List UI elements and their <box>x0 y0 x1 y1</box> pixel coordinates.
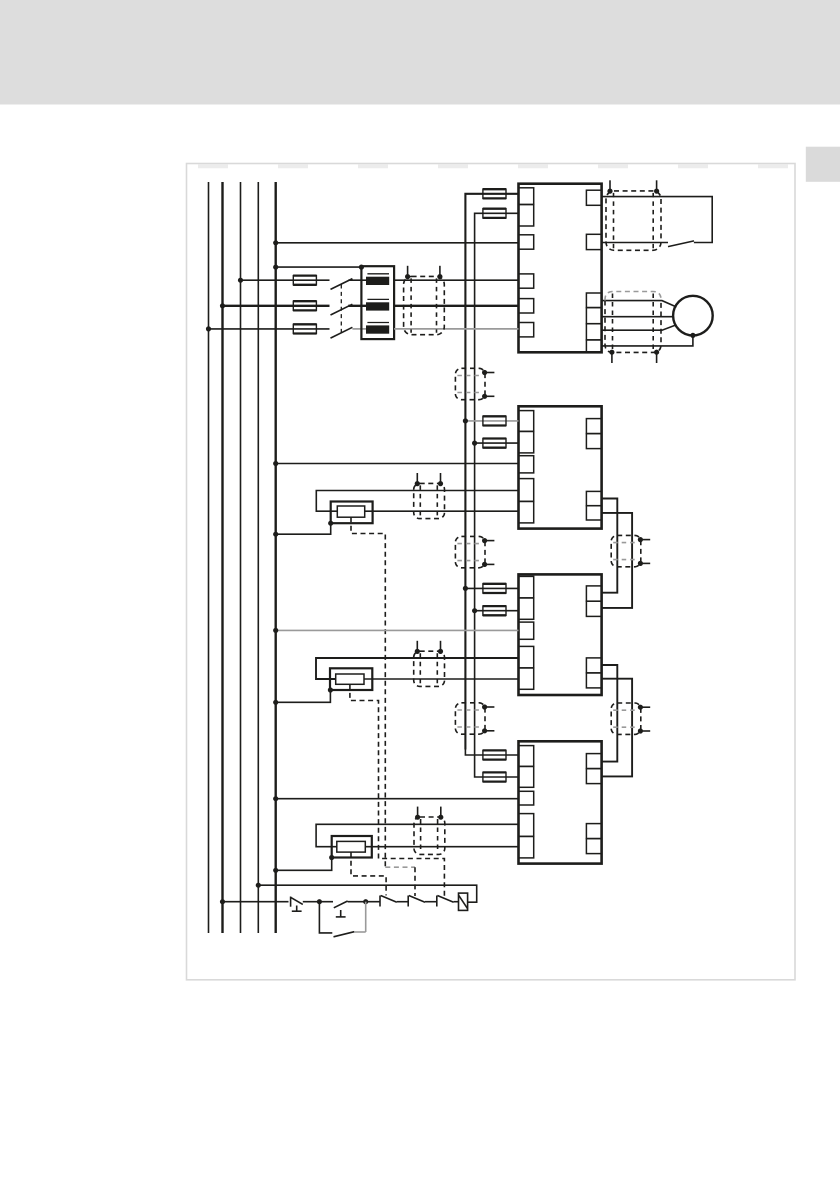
motor M1 <box>673 296 713 336</box>
inverter U3 <box>519 574 602 695</box>
wire RB3 ground <box>276 858 332 871</box>
junction RB2 housing <box>328 687 333 692</box>
contactor K1 pole 1 <box>331 279 353 290</box>
junction RB3 housing <box>329 855 334 860</box>
thermal link RB1 drop <box>414 867 416 896</box>
wire S5-K1 <box>454 901 459 903</box>
shield mains cable <box>404 266 445 335</box>
junction RB1 housing <box>328 521 333 526</box>
RFI filter Z1 <box>361 266 394 339</box>
bus line L2 <box>221 182 223 933</box>
wire fuse U4 - <box>475 772 519 778</box>
wire L1 branch <box>241 279 330 281</box>
fuse F3 <box>293 324 317 333</box>
bus line PE <box>275 182 277 933</box>
thermal link RB2 <box>350 684 445 896</box>
fuse F2 <box>293 301 317 310</box>
thermal contact S3 <box>380 896 397 907</box>
junction L control <box>220 899 225 904</box>
junction RB3 PE <box>273 868 278 873</box>
shield clamp chain 2-3 <box>611 535 650 566</box>
shield clamp feed 3-4 <box>455 703 494 734</box>
wire RB2 ground <box>276 690 331 702</box>
fuse F31 <box>483 750 507 759</box>
wire fuse U4 + <box>465 750 518 756</box>
wire PE to U2 <box>276 463 519 465</box>
junction PE bus 2 <box>273 265 278 270</box>
wire PE to U4 <box>276 798 519 800</box>
bus line L1 <box>208 182 210 933</box>
wire S2-S3 <box>348 901 380 903</box>
inverter U2 <box>519 406 602 528</box>
brake contact <box>668 241 694 247</box>
shield clamp chain 3-4 <box>611 703 650 734</box>
wire +UG feed <box>465 194 518 750</box>
wire control chain <box>223 901 289 903</box>
inverter U4 <box>519 741 602 863</box>
wire PE to filter <box>276 266 362 268</box>
bus line L3 <box>240 182 242 933</box>
junction latch left <box>317 899 322 904</box>
junction PE U2 <box>273 461 278 466</box>
wire brake + <box>602 197 713 243</box>
wire DC chain 3-4 - <box>602 679 633 777</box>
shield clamp feed 1-2 <box>455 368 494 399</box>
wire motor U <box>602 301 677 307</box>
fuse F1 <box>293 276 317 285</box>
wire fuse U2 + <box>465 420 518 422</box>
junction feed U2 - <box>472 441 477 446</box>
junction filter PE <box>359 265 364 270</box>
inverter U1 <box>519 184 602 353</box>
wire S4-S5 <box>425 901 437 903</box>
start button S2 <box>334 901 348 917</box>
shield clamp feed 2-3 <box>455 536 494 567</box>
junction RB1 PE <box>273 532 278 537</box>
shield brake cable <box>606 180 661 250</box>
wire motor W <box>602 325 677 330</box>
wire U to U1 <box>394 279 518 281</box>
fuse F22 <box>483 606 507 615</box>
shield clamp RB1 <box>414 473 445 519</box>
wire L2 to filter <box>348 305 366 307</box>
fuse F21 <box>483 584 507 593</box>
fuse F5 -UG <box>483 209 507 218</box>
wire S3-S4 <box>397 901 408 903</box>
junction PE bus 1 <box>273 240 278 245</box>
contactor K1 pole 3 <box>331 327 353 338</box>
thermal contact S5 <box>437 896 454 907</box>
junction PE U4 <box>273 796 278 801</box>
shield clamp RB2 <box>414 641 445 687</box>
wire fuse U3 + <box>465 587 518 589</box>
fuse F32 <box>483 772 507 781</box>
brake resistor RB3 <box>316 824 518 857</box>
junction RB2 PE <box>273 700 278 705</box>
wire PE to U3 <box>276 629 519 631</box>
junction feed U3 - <box>472 608 477 613</box>
brake resistor RB1 <box>316 491 518 524</box>
scan ghost row <box>198 164 792 168</box>
junction PE U3 <box>273 628 278 633</box>
section tab <box>806 147 840 182</box>
wire motor PE <box>602 335 693 346</box>
wire L1 to filter <box>348 279 366 281</box>
wire L3 to filter <box>352 328 366 330</box>
latch contact K1 <box>319 902 365 937</box>
wire RB1 ground <box>276 523 331 534</box>
junction L1 <box>238 278 243 283</box>
wire DC chain 3-4 + <box>602 665 618 762</box>
junction N control <box>256 883 261 888</box>
junction feed U2 + <box>463 418 468 423</box>
figure frame <box>187 164 796 980</box>
junction L3 <box>206 326 211 331</box>
bus line N <box>257 182 259 933</box>
contactor K1 pole 2 <box>331 304 353 315</box>
wire V to U1 <box>394 305 518 307</box>
junction motor PE <box>690 333 695 338</box>
fuse F12 <box>483 439 507 448</box>
brake resistor RB2 <box>316 658 519 690</box>
wire PE to U1 <box>276 242 519 244</box>
wire DC chain 2-3 + <box>602 499 618 593</box>
wire S1-S2 <box>303 901 333 903</box>
wire brake - <box>602 242 668 244</box>
wire fuse U3 - <box>475 610 519 612</box>
wire L3 branch <box>209 328 330 330</box>
wire motor V <box>602 316 674 318</box>
thermal contact S4 <box>408 896 425 907</box>
junction L2 <box>220 303 225 308</box>
thermal link RB1 lower <box>385 866 415 868</box>
wire control supply <box>258 885 476 902</box>
contactor K1 linkage <box>340 285 342 334</box>
thermal link RB3 <box>351 852 386 895</box>
junction latch right <box>363 899 368 904</box>
contactor coil K1 <box>459 893 468 910</box>
junction feed U3 + <box>463 586 468 591</box>
wire W to U1 <box>394 328 518 330</box>
wire -UG feed <box>475 213 519 771</box>
wire DC chain 2-3 - <box>602 513 633 608</box>
wire fuse U2 - <box>475 442 519 444</box>
header band <box>0 0 840 105</box>
shield motor cable <box>605 292 661 364</box>
thermal link RB1 <box>351 517 385 867</box>
stop button S1 <box>291 897 303 912</box>
wire L2 branch <box>223 305 330 307</box>
fuse F4 +UG <box>483 189 507 198</box>
fuse F11 <box>483 416 507 425</box>
shield clamp RB3 <box>414 807 445 855</box>
